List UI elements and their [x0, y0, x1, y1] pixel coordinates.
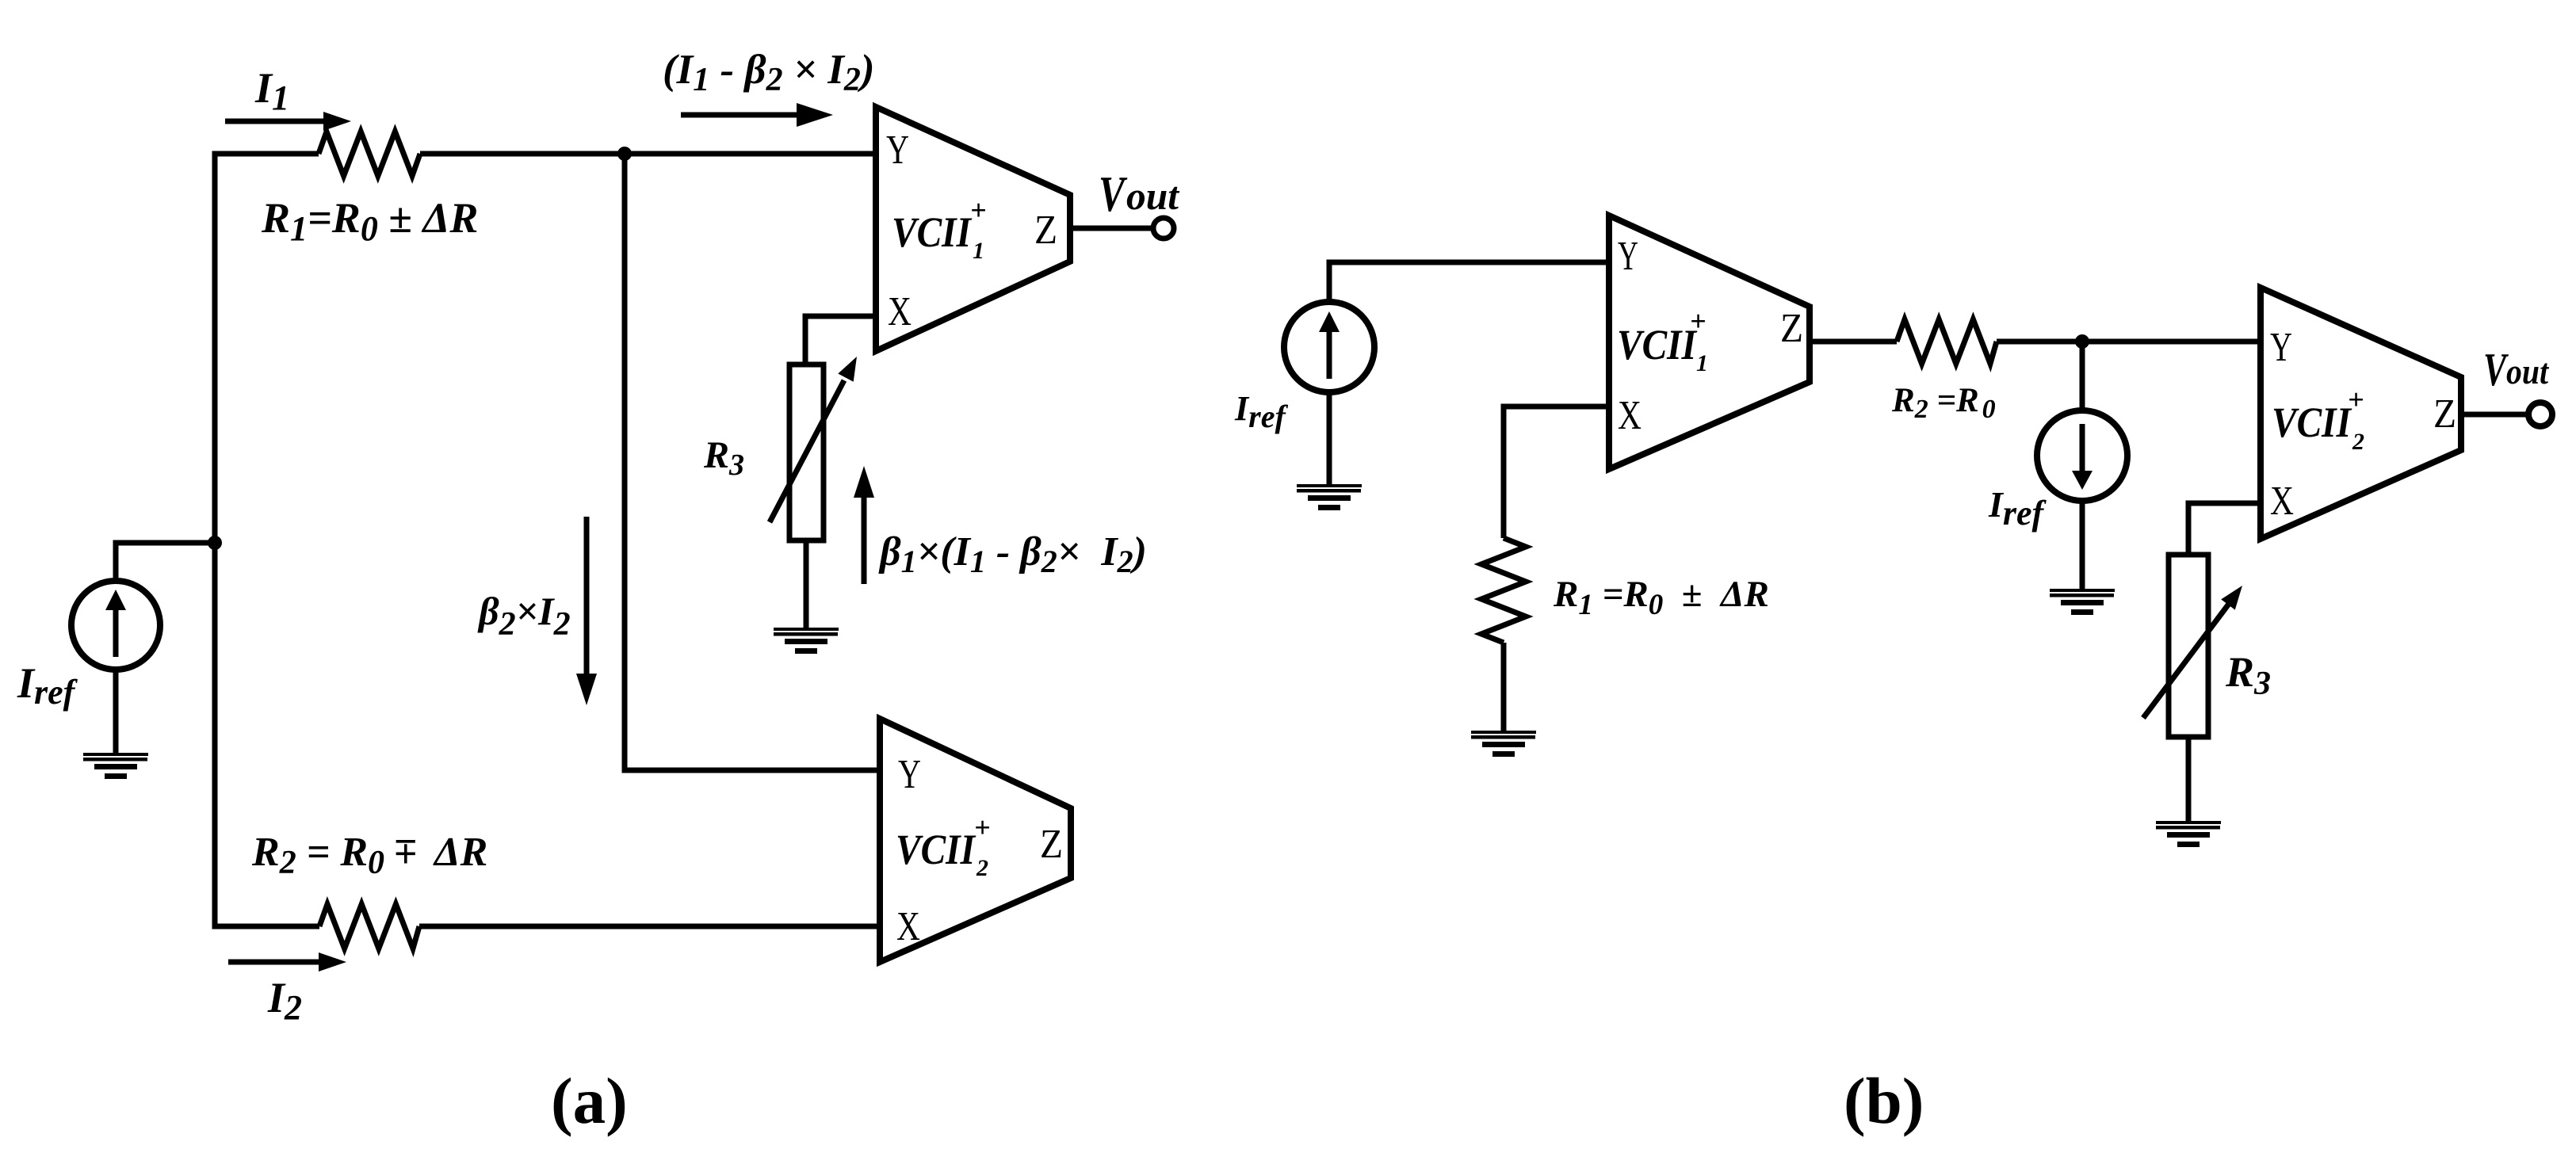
- wire Iref (a) to ground: [113, 670, 119, 756]
- ground (under Iref a): [83, 753, 148, 779]
- op-amp U4: VCII2+ (b) trapezoid: [2261, 288, 2461, 539]
- resistor R2 (a) zigzag: [319, 904, 419, 949]
- resistor R3 (a) variable, rectangle: [789, 365, 824, 540]
- wire VCII1 Z to output terminal: [1070, 226, 1153, 231]
- current arrow (I1 - b2 x I2): [681, 113, 802, 118]
- current arrow I2: [228, 960, 322, 965]
- svg-text:ΔR: ΔR: [433, 830, 487, 875]
- svg-text:I2: I2: [267, 974, 302, 1027]
- svg-text:+: +: [1690, 305, 1707, 337]
- wire VCII1 (b) Z to R2: [1810, 339, 1897, 345]
- current arrow I1: [225, 119, 327, 124]
- svg-text:Z: Z: [1034, 208, 1057, 253]
- svg-text:VCII: VCII: [892, 208, 973, 256]
- current arrow beta2 x I2 (down): [584, 517, 590, 677]
- svg-text:V: V: [2483, 343, 2509, 395]
- op-amp U3: VCII1+ (b) trapezoid: [1609, 216, 1810, 469]
- svg-text:VCII: VCII: [896, 826, 977, 873]
- wire top rail left + left vertical rail + bottom rail left: [215, 154, 319, 926]
- wire R1 to VCII1 Y pin: [420, 151, 876, 157]
- node C (junction dot): [2075, 334, 2089, 349]
- resistor R2 (b) zigzag: [1897, 319, 1997, 364]
- svg-text:R1 =R0 ± ΔR: R1 =R0 ± ΔR: [1553, 574, 1769, 621]
- svg-text:Z: Z: [1040, 822, 1063, 867]
- svg-text:Y: Y: [1618, 234, 1638, 279]
- wire R3 to ground: [804, 540, 809, 631]
- svg-text:(a): (a): [551, 1064, 628, 1137]
- svg-text:Iref: Iref: [1234, 389, 1288, 434]
- svg-text:Z: Z: [2433, 391, 2456, 437]
- svg-text:Iref: Iref: [1988, 484, 2047, 533]
- ground (under R1 b): [1471, 731, 1536, 757]
- current arrow beta1 x (I1 - b2 x I2) (up): [862, 496, 867, 584]
- svg-text:β1×(I1 - β2× I2): β1×(I1 - β2× I2): [878, 529, 1147, 579]
- terminal Vout (b): [2528, 403, 2552, 426]
- svg-text:Y: Y: [898, 752, 921, 797]
- ground (under R3 a): [774, 628, 839, 654]
- svg-text:R3: R3: [2225, 648, 2271, 702]
- terminal Vout (a): [1153, 218, 1174, 239]
- wire VCII2 (b) X to R3: [2188, 503, 2261, 555]
- wire R2 (b) to VCII2 Y pin: [1997, 339, 2261, 345]
- op-amp U1: VCII1+ (a) trapezoid: [876, 107, 1070, 351]
- wire node C to Iref (b2): [2080, 342, 2085, 410]
- svg-text:R1=R0 ± ΔR: R1=R0 ± ΔR: [261, 194, 478, 248]
- wire Iref (b1) to VCII1 Y: [1329, 262, 1609, 302]
- wire node A down to VCII2 Y pin: [625, 154, 880, 770]
- resistor R1 (a) zigzag: [319, 132, 420, 176]
- wire VCII1 (b) X to R1: [1504, 407, 1609, 538]
- svg-text:2: 2: [976, 855, 988, 881]
- svg-text:out: out: [2506, 351, 2549, 391]
- svg-text:I1: I1: [254, 64, 289, 117]
- svg-text:Y: Y: [886, 128, 909, 173]
- svg-text:β2×I2: β2×I2: [477, 589, 571, 643]
- svg-text:(b): (b): [1844, 1064, 1924, 1137]
- current source Iref (b2, down): [2037, 410, 2127, 501]
- svg-text:X: X: [2270, 479, 2294, 524]
- current source Iref (a): [71, 581, 160, 670]
- svg-text:V: V: [1099, 166, 1128, 222]
- wire Iref (b2) to ground: [2080, 501, 2085, 592]
- wire Iref (b1) to ground: [1327, 392, 1332, 487]
- svg-text:±: ±: [394, 830, 417, 876]
- resistor R3 (b) variable, rectangle: [2169, 555, 2208, 737]
- ground (under Iref b1): [1297, 484, 1362, 510]
- svg-text:+: +: [974, 811, 991, 843]
- svg-text:R3: R3: [703, 434, 744, 482]
- svg-text:out: out: [1126, 174, 1180, 218]
- op-amp U2: VCII2+ (a) trapezoid: [880, 719, 1071, 962]
- svg-text:VCII: VCII: [1617, 321, 1698, 368]
- svg-text:X: X: [896, 904, 920, 949]
- svg-text:1: 1: [973, 238, 984, 264]
- svg-text:VCII: VCII: [2272, 399, 2352, 446]
- wire R1 (b) to ground: [1501, 643, 1507, 734]
- ground (under Iref b2): [2050, 589, 2115, 615]
- svg-text:R2 =R0: R2 =R0: [1891, 382, 1996, 424]
- svg-text:R2 = R0: R2 = R0: [251, 830, 384, 881]
- svg-text:2: 2: [2352, 429, 2364, 455]
- svg-text:+: +: [970, 194, 987, 226]
- svg-text:(I1 - β2 × I2): (I1 - β2 × I2): [663, 47, 875, 98]
- wire junction to Iref source: [116, 543, 215, 581]
- node B (junction dot left rail): [208, 536, 222, 550]
- resistor R1 (b) vertical zigzag: [1481, 538, 1526, 643]
- svg-text:X: X: [888, 289, 912, 334]
- wire VCII1 X to R3: [805, 316, 876, 365]
- wire R2 to VCII2 X pin: [419, 924, 880, 930]
- current source Iref (b1): [1284, 302, 1374, 392]
- svg-text:X: X: [1618, 393, 1642, 438]
- svg-text:1: 1: [1696, 350, 1708, 376]
- ground (under R3 b): [2156, 821, 2221, 847]
- svg-text:Z: Z: [1780, 306, 1803, 351]
- svg-text:+: +: [2348, 384, 2364, 415]
- wire VCII2 (b) Z to output terminal: [2461, 412, 2528, 418]
- svg-text:Iref: Iref: [17, 659, 78, 712]
- wire R3 (b) to ground: [2186, 737, 2192, 824]
- node A (junction dot top rail): [617, 147, 632, 161]
- svg-text:Y: Y: [2270, 325, 2292, 370]
